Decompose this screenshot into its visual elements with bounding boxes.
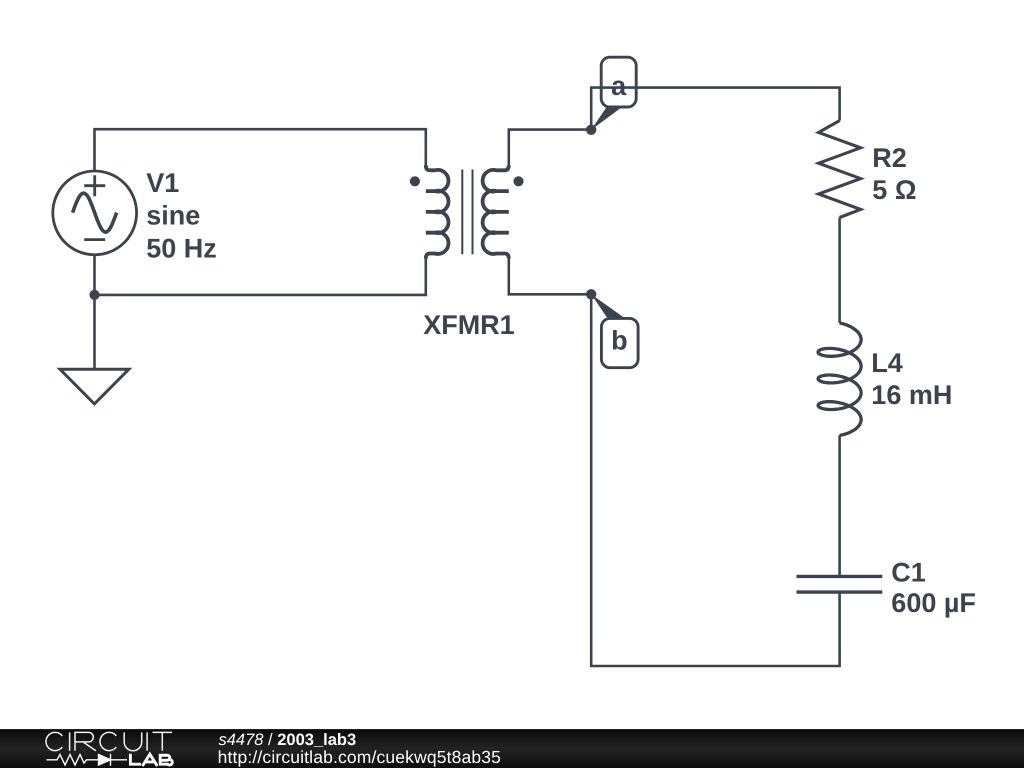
junction dot node b — [586, 289, 596, 299]
svg-text:16 mH: 16 mH — [871, 380, 952, 410]
XFMR1 secondary winding — [483, 165, 509, 258]
node b flag box — [601, 318, 638, 367]
CircuitLab logo CIRCUIT — [46, 732, 172, 750]
junction dot node a — [586, 125, 596, 135]
inductor L4 — [818, 323, 861, 436]
node b flag pointer — [591, 294, 623, 317]
svg-text:L4: L4 — [871, 348, 903, 378]
wire: R2 to L4 — [838, 218, 841, 323]
svg-text:C1: C1 — [891, 558, 926, 588]
wire: L4 to C1 — [838, 435, 841, 576]
capacitor C1 — [797, 576, 883, 592]
wire: V1 bottom to ground — [93, 213, 96, 369]
svg-text:5 Ω: 5 Ω — [872, 175, 916, 205]
wire: V1 top to XFMR1 primary top — [95, 129, 426, 213]
transformer XFMR1 primary winding — [426, 165, 449, 258]
wire: node a up and right to R2 — [591, 88, 839, 130]
CircuitLab logo LAB — [130, 754, 172, 766]
CircuitLab logo resistor-diode doodle — [47, 754, 128, 766]
label C1 600 uF — [891, 558, 976, 618]
XFMR1 phase dot primary — [410, 176, 420, 186]
svg-text:b: b — [611, 326, 628, 356]
svg-text:V1: V1 — [146, 168, 179, 198]
svg-text:sine: sine — [146, 201, 200, 231]
wire: C1 bottom around to node b — [591, 294, 839, 666]
resistor R2 — [819, 121, 861, 218]
wire: XFMR1 secondary top to node a — [509, 130, 591, 166]
svg-text:XFMR1: XFMR1 — [423, 310, 515, 340]
junction dot at V1 bottom — [89, 290, 99, 300]
ground — [60, 369, 129, 404]
XFMR1 core — [462, 170, 472, 255]
svg-text:a: a — [611, 71, 627, 101]
voltage source V1 — [53, 171, 137, 255]
svg-text:600 µF: 600 µF — [891, 588, 976, 618]
node a flag pointer — [591, 107, 622, 130]
svg-text:50 Hz: 50 Hz — [146, 233, 217, 263]
node a flag box — [601, 57, 636, 107]
wire: XFMR1 secondary bottom to node b — [509, 258, 591, 294]
svg-text:http://circuitlab.com/cuekwq5t: http://circuitlab.com/cuekwq5t8ab35 — [218, 747, 501, 767]
XFMR1 phase dot secondary — [513, 176, 523, 186]
label L4 16 mH — [871, 348, 952, 410]
wire: XFMR1 primary bottom to V1 bottom junction — [95, 258, 426, 295]
svg-text:R2: R2 — [872, 143, 907, 173]
label R2 5 Ohm — [872, 143, 916, 205]
label V1 sine 50 Hz — [146, 168, 217, 263]
